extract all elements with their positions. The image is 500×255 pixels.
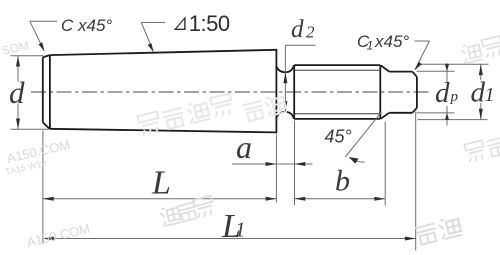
C x45 leader horizontal	[30, 20, 57, 22]
cone bottom edge	[50, 129, 277, 133]
tip chamfer bottom	[412, 108, 417, 113]
taper leader horizontal	[141, 22, 165, 24]
d2 dimension line	[284, 45, 286, 111]
taper leader slant	[141, 23, 153, 51]
d2 label underline	[285, 44, 315, 46]
dp top extension	[417, 70, 455, 72]
d bottom extension	[11, 128, 49, 130]
watermark cjk top right	[460, 36, 500, 64]
thread bottom major line	[294, 118, 380, 120]
a dimension line	[232, 163, 313, 165]
C1 leader arrow	[415, 62, 422, 71]
thread start face	[293, 65, 295, 119]
C1 x45 leader slant	[415, 41, 430, 70]
svg-text:A150.COM: A150.COM	[25, 221, 91, 250]
taper leader arrow	[148, 43, 154, 52]
L1 right extension line	[415, 112, 417, 251]
tip top edge	[389, 71, 412, 73]
d1 top arrow	[479, 64, 483, 75]
svg-text:d: d	[9, 75, 25, 110]
L left arrow	[43, 197, 54, 201]
svg-text:1: 1	[367, 39, 374, 53]
svg-text:d: d	[291, 16, 304, 43]
tip chamfer top	[412, 72, 417, 77]
45 deg reference slant line	[345, 112, 381, 157]
taper pin body outline	[43, 49, 417, 133]
b right arrow	[374, 197, 385, 201]
b dimension line	[295, 198, 386, 200]
L1 left arrow	[43, 237, 54, 241]
watermark cjk partial right of cone	[243, 94, 287, 121]
thread runout top	[381, 65, 389, 71]
left chamfer bottom	[43, 122, 50, 128]
dp bottom arrow (outside, pointing up)	[445, 113, 449, 120]
watermark cjk bottom center	[159, 196, 215, 227]
C x45 leader arrow	[39, 42, 45, 51]
d1 bottom arrow	[479, 109, 483, 120]
neck groove bottom	[276, 112, 294, 119]
svg-text:C x45°: C x45°	[61, 16, 112, 35]
thread minor lines	[294, 70, 381, 113]
dp top arrow (outside, pointing down)	[445, 64, 449, 71]
svg-text:1: 1	[235, 218, 246, 242]
svg-text:SOM: SOM	[1, 38, 31, 58]
extension line at thread start	[294, 121, 296, 206]
svg-text:d: d	[435, 77, 450, 109]
d1 dimension line upper	[480, 64, 482, 80]
cone right face	[275, 49, 277, 133]
svg-text:b: b	[335, 165, 350, 198]
left chamfer top	[43, 55, 50, 57]
thread end face	[379, 65, 381, 119]
d2 top arrow	[283, 72, 287, 83]
dp dimension line lower	[446, 106, 448, 126]
svg-text:d: d	[471, 77, 486, 109]
b left arrow	[295, 197, 306, 201]
tip end face	[416, 77, 418, 108]
svg-text:1:50: 1:50	[189, 11, 230, 36]
C x45 leader slant	[30, 21, 44, 50]
taper symbol	[174, 16, 186, 30]
d bottom arrow	[16, 119, 20, 130]
chamfer junction line	[49, 55, 51, 129]
C1 x45 leader horizontal	[415, 40, 430, 42]
d2 bottom arrow	[283, 101, 287, 112]
watermark cjk right edge	[464, 135, 500, 163]
svg-text:L: L	[151, 165, 171, 202]
left end face	[42, 57, 44, 122]
d top extension	[11, 55, 44, 57]
svg-text:45°: 45°	[325, 127, 352, 147]
left extension line for L and L1	[42, 131, 44, 244]
45 deg curved arrow head	[349, 157, 359, 164]
tip bottom edge	[389, 112, 412, 114]
svg-text:x45°: x45°	[374, 32, 409, 51]
svg-text:1: 1	[485, 84, 495, 106]
d1 top extension	[418, 63, 489, 65]
a left arrow (outside pointing right)	[266, 162, 277, 166]
thread top major line	[294, 64, 380, 66]
dp bottom extension	[417, 112, 455, 114]
d1 bottom extension	[418, 119, 488, 121]
neck groove top	[276, 65, 294, 72]
cone top edge	[50, 50, 277, 55]
extension line at cone right face	[275, 135, 277, 203]
a right arrow (outside pointing left)	[295, 162, 306, 166]
svg-text:2: 2	[306, 23, 315, 42]
d dimension line upper	[17, 56, 19, 82]
d1 dimension line lower	[480, 103, 482, 120]
b right extension line	[384, 122, 386, 206]
thread runout bottom	[381, 113, 389, 119]
svg-text:p: p	[450, 89, 459, 105]
45 deg curved arrow tail	[351, 159, 365, 163]
watermark cjk bottom right	[415, 216, 462, 245]
arrowheads	[16, 42, 483, 240]
svg-text:a: a	[236, 129, 252, 165]
L right arrow	[266, 197, 277, 201]
L dimension line	[43, 198, 277, 200]
L1 dimension line	[43, 238, 416, 240]
L1 right arrow	[405, 237, 416, 241]
watermark cjk row inside cone	[137, 93, 234, 136]
d top arrow	[16, 56, 20, 67]
d dimension line lower	[17, 104, 19, 130]
centerline	[31, 91, 431, 93]
dp dimension line upper	[446, 63, 448, 82]
